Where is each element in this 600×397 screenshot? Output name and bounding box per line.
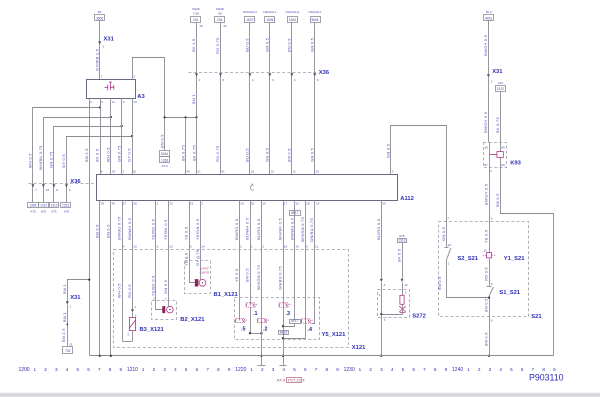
off-page reference AT-4P17.22 (277, 378, 306, 383)
svg-text:2: 2 (252, 78, 254, 82)
S272 connector pins (380, 279, 408, 287)
branch wire to X36 pin 7 (33, 108, 101, 189)
svg-text:2: 2 (369, 367, 372, 372)
svg-text:4923: 4923 (485, 17, 492, 21)
svg-text:BN 2.5: BN 2.5 (84, 148, 89, 162)
svg-text:AT-4: AT-4 (277, 378, 286, 383)
svg-text:AF17: AF17 (291, 211, 299, 215)
solenoid valve Y5_X121 .4 (302, 319, 314, 333)
svg-text:36: 36 (382, 202, 386, 206)
svg-text:4: 4 (294, 78, 296, 82)
wire S1 to ground bus (489, 297, 491, 356)
svg-text:1311: 1311 (40, 204, 47, 208)
svg-text:38: 38 (133, 202, 137, 206)
svg-text:X31: X31 (492, 69, 503, 75)
svg-text:YE/BK 0.5: YE/BK 0.5 (163, 219, 168, 240)
svg-text:WH/GN 0.75: WH/GN 0.75 (256, 265, 261, 290)
svg-text:17: 17 (284, 202, 288, 206)
svg-text:1: 1 (157, 202, 159, 206)
wire 5606 to A112 pin 30 (314, 23, 316, 175)
svg-text:8: 8 (434, 367, 437, 372)
ground bus wire (90, 355, 554, 357)
reference box AF22 (279, 331, 289, 335)
svg-text:31: 31 (271, 170, 275, 174)
svg-text:7: 7 (423, 367, 426, 372)
node HSCAN-H 1624 (285, 10, 299, 23)
power source reference box RL 3606 (95, 10, 105, 20)
svg-text:BN 1: BN 1 (62, 312, 67, 322)
A112 top pin numbers (101, 170, 394, 174)
svg-text:S1_S21: S1_S21 (499, 290, 520, 296)
wire A112 pin 2 to B1_X121 (200, 201, 202, 280)
svg-text:86: 86 (501, 145, 505, 149)
svg-text:6: 6 (491, 319, 493, 323)
svg-text:A3: A3 (137, 94, 145, 100)
svg-text:BN 0.5: BN 0.5 (287, 38, 292, 52)
svg-text:BK 0.75: BK 0.75 (191, 145, 196, 161)
svg-text:BN 0.5: BN 0.5 (245, 268, 250, 282)
svg-text:.1: .1 (253, 311, 258, 317)
svg-text:41: 41 (221, 170, 225, 174)
svg-text:9: 9 (317, 78, 319, 82)
svg-text:5: 5 (76, 367, 79, 372)
svg-text:11: 11 (293, 170, 296, 174)
svg-text:A112: A112 (400, 196, 414, 202)
svg-text:2: 2 (153, 367, 156, 372)
svg-text:2: 2 (240, 245, 242, 249)
svg-text:7.5A: 7.5A (193, 11, 199, 15)
control module A112 (97, 175, 414, 203)
svg-text:40: 40 (186, 170, 190, 174)
svg-text:BN/GY 0.5: BN/GY 0.5 (483, 112, 488, 133)
svg-text:RD 0.5: RD 0.5 (127, 284, 132, 298)
X121 pin numbers (123, 245, 319, 249)
svg-text:9: 9 (392, 170, 394, 174)
svg-text:6: 6 (304, 367, 307, 372)
solenoid valve Y5_X121 .5 (236, 318, 248, 332)
svg-text:HSCAN-L: HSCAN-L (263, 10, 277, 14)
svg-text:BN 0.5: BN 0.5 (95, 224, 100, 238)
svg-text:10: 10 (133, 100, 137, 104)
svg-text:2: 2 (478, 367, 481, 372)
svg-text:BN 0.5: BN 0.5 (287, 148, 292, 162)
svg-text:WH/BK 0.5: WH/BK 0.5 (278, 218, 283, 240)
svg-text:RD 0.75: RD 0.75 (215, 146, 220, 162)
svg-text:6: 6 (101, 100, 103, 104)
wire S2 return to S1 junction (447, 261, 490, 298)
svg-text:B3_X121: B3_X121 (140, 327, 165, 333)
svg-text:GY 0.5: GY 0.5 (61, 154, 66, 168)
svg-text:6: 6 (223, 78, 225, 82)
svg-text:BU/RD 0.5: BU/RD 0.5 (376, 219, 381, 240)
svg-text:1: 1 (251, 245, 253, 249)
wire valve 1 return (249, 308, 263, 335)
svg-text:201: 201 (193, 18, 199, 22)
svg-text:1200: 1200 (18, 367, 29, 373)
valve block Y5_X121 dashed box (235, 298, 347, 340)
svg-text:A7.6: A7.6 (162, 164, 169, 168)
svg-text:5: 5 (157, 245, 159, 249)
wire A112 pin 20 to valve 1 (250, 201, 252, 306)
svg-text:GN 0.5: GN 0.5 (309, 148, 314, 162)
svg-text:40: 40 (112, 202, 116, 206)
svg-text:1312: 1312 (51, 204, 58, 208)
svg-text:BN/RD 0.5: BN/RD 0.5 (234, 219, 239, 240)
wire A112 pin 22 to B2_X121 (168, 201, 170, 307)
svg-text:.4: .4 (308, 327, 313, 333)
assembly S21 dashed box (439, 222, 543, 320)
svg-text:BN 0.5: BN 0.5 (484, 332, 489, 346)
svg-text:1: 1 (379, 293, 381, 297)
svg-text:3: 3 (127, 333, 129, 337)
svg-text:GN 0.75: GN 0.75 (49, 151, 54, 168)
svg-text:X36: X36 (70, 179, 81, 185)
svg-text:BN 1: BN 1 (191, 94, 196, 104)
svg-text:2: 2 (405, 291, 407, 295)
wire A112 pin 9 loop to S2_S21 (391, 126, 447, 248)
svg-text:GN/BU 0.75: GN/BU 0.75 (309, 218, 314, 242)
svg-text:GN 0.5: GN 0.5 (441, 227, 446, 241)
svg-text:3: 3 (489, 367, 492, 372)
svg-text:2: 2 (491, 79, 493, 83)
svg-text:1607: 1607 (246, 18, 253, 22)
wire labels left column (28, 145, 67, 170)
wire A112 pin 14 to valve 4 right (312, 201, 315, 324)
svg-text:5044: 5044 (161, 152, 168, 156)
svg-text:BN/WH 0.5: BN/WH 0.5 (127, 218, 132, 240)
svg-text:S272: S272 (412, 313, 426, 319)
svg-text:20: 20 (133, 170, 137, 174)
svg-text:1: 1 (142, 367, 145, 372)
svg-text:BK 0.75: BK 0.75 (180, 145, 185, 161)
svg-text:234: 234 (217, 18, 223, 22)
svg-text:HSCAN-L: HSCAN-L (308, 10, 322, 14)
svg-text:6: 6 (196, 367, 199, 372)
svg-text:8: 8 (326, 367, 329, 372)
svg-text:9: 9 (228, 367, 231, 372)
svg-text:1: 1 (467, 367, 470, 372)
svg-text:X31: X31 (70, 295, 81, 301)
svg-text:3: 3 (102, 45, 104, 49)
svg-text:S2_S21: S2_S21 (457, 256, 478, 262)
svg-text:10: 10 (483, 248, 487, 252)
svg-text:8: 8 (217, 367, 220, 372)
wire A112 pin 38 to B3_X121 sensor (123, 201, 133, 342)
svg-text:39: 39 (101, 202, 105, 206)
coordinate ruler (18, 367, 556, 373)
svg-text:A75: A75 (30, 210, 36, 214)
svg-text:BU/WH 0.5: BU/WH 0.5 (245, 218, 250, 240)
svg-text:BN 0.5: BN 0.5 (495, 193, 500, 207)
off-page tick right (280, 365, 287, 367)
svg-text:2: 2 (201, 202, 203, 206)
svg-text:8: 8 (123, 100, 125, 104)
svg-text:BK 0.5: BK 0.5 (397, 249, 402, 262)
branch wire to X36 pin 15 (44, 118, 111, 189)
svg-text:1: 1 (186, 256, 188, 260)
svg-text:GN 0.5: GN 0.5 (163, 280, 168, 294)
svg-text:7: 7 (35, 188, 37, 192)
svg-text:9: 9 (336, 367, 339, 372)
svg-text:18: 18 (240, 202, 244, 206)
branch wire to X36 pin 9 (67, 137, 133, 189)
svg-text:10: 10 (295, 202, 299, 206)
svg-text:24: 24 (112, 170, 116, 174)
solenoid Y1_S21 (483, 248, 526, 261)
svg-text:1220: 1220 (235, 367, 246, 373)
svg-text:A75: A75 (399, 234, 405, 238)
wire 1606 to A112 pin 31 (269, 23, 271, 175)
svg-text:11: 11 (315, 245, 318, 249)
svg-text:4: 4 (123, 245, 125, 249)
wire 1313 to S272 (402, 243, 404, 296)
svg-text:12: 12 (404, 283, 408, 287)
svg-text:4: 4 (283, 367, 286, 372)
wire BK 0.75 to A112 pin 40 (185, 118, 187, 175)
svg-text:X36: X36 (319, 70, 330, 76)
svg-text:1210: 1210 (127, 367, 138, 373)
connector X31 pin 2 right (487, 69, 503, 83)
wire A112 pin 27 to B3_X121 (122, 201, 124, 342)
svg-text:15: 15 (295, 245, 299, 249)
svg-text:X121: X121 (352, 345, 366, 351)
sensor B1_X121 (185, 256, 239, 298)
svg-text:BN 0.5: BN 0.5 (437, 276, 442, 290)
wire BK 0.75 to A112 pin 21 (196, 118, 198, 175)
wire 1312 to K93 pin 86 (500, 92, 502, 143)
A112 bottom pin numbers (101, 202, 386, 206)
wire RL to A3 pin 7 (99, 21, 101, 80)
node junction horizontal 117 (165, 117, 197, 119)
svg-text:3: 3 (384, 318, 386, 322)
svg-text:S21: S21 (531, 314, 542, 320)
svg-text:B2_X121: B2_X121 (180, 317, 205, 323)
svg-text:WH 0.5: WH 0.5 (106, 147, 111, 162)
svg-text:1240: 1240 (452, 367, 463, 373)
A3 internal symbol (105, 82, 114, 90)
svg-text:14: 14 (201, 245, 205, 249)
svg-text:3: 3 (380, 367, 383, 372)
svg-text:8: 8 (109, 367, 112, 372)
svg-text:BN/GY 0.5: BN/GY 0.5 (483, 35, 488, 56)
svg-text:9: 9 (445, 367, 448, 372)
svg-text:GN/BU 0.75: GN/BU 0.75 (278, 266, 283, 290)
svg-text:7: 7 (206, 367, 209, 372)
svg-text:P903110: P903110 (529, 372, 564, 382)
svg-text:6: 6 (87, 367, 90, 372)
sensor B2_X121 (152, 296, 206, 323)
svg-text:A75: A75 (41, 210, 47, 214)
svg-text:1: 1 (250, 367, 253, 372)
svg-text:20: 20 (251, 202, 255, 206)
svg-text:3606: 3606 (96, 17, 103, 21)
svg-text:19: 19 (251, 170, 255, 174)
wire A112 pin 40 to ground bus (110, 201, 112, 356)
svg-text:13: 13 (169, 245, 173, 249)
svg-text:≟: ≟ (311, 319, 314, 323)
svg-text:K93: K93 (510, 160, 521, 166)
connector X121 dashed box (114, 250, 367, 351)
svg-text:4: 4 (499, 367, 502, 372)
reference box AF17 lower (290, 320, 301, 324)
wire A112 pin 36 to S272 (381, 201, 383, 315)
svg-text:BN 0.5: BN 0.5 (484, 298, 489, 312)
svg-text:2: 2 (135, 314, 137, 318)
svg-text:1306: 1306 (29, 204, 36, 208)
svg-text:GN 0.75: GN 0.75 (116, 145, 121, 162)
svg-text:1: 1 (135, 305, 137, 309)
svg-text:5: 5 (185, 367, 188, 372)
svg-text:WH 0.5: WH 0.5 (28, 153, 33, 168)
wire A112 pin 39 to ground bus (99, 201, 101, 356)
connector X31 pin 3 (98, 36, 114, 48)
wire A112 pin 18b to valve 4 (305, 201, 307, 339)
svg-text:1313: 1313 (398, 239, 405, 243)
svg-text:YE 0.5: YE 0.5 (484, 230, 489, 243)
svg-text:1: 1 (359, 367, 362, 372)
fuse FE28 5A box 234 (215, 7, 228, 28)
svg-text:AF22: AF22 (280, 330, 288, 334)
wire A112 pin 10 to AF17 (294, 201, 296, 320)
svg-text:9: 9 (190, 245, 192, 249)
svg-text:RD 0.5: RD 0.5 (484, 267, 489, 281)
svg-text:3: 3 (272, 367, 275, 372)
svg-text:GY/WB 2.5: GY/WB 2.5 (94, 49, 99, 71)
A112 internal symbol (250, 184, 254, 190)
svg-text:GN 0.5: GN 0.5 (265, 38, 270, 52)
svg-text:14: 14 (316, 202, 320, 206)
wire K93 pin 85 to ground rail (501, 168, 554, 356)
svg-text:18: 18 (306, 202, 310, 206)
svg-text:BN 0.5: BN 0.5 (106, 224, 111, 238)
svg-text:1333: 1333 (161, 158, 168, 162)
svg-text:2: 2 (261, 367, 264, 372)
relay K93 (484, 143, 522, 173)
svg-text:16: 16 (284, 245, 288, 249)
svg-text:BK 0.75: BK 0.75 (495, 117, 500, 133)
svg-text:1624: 1624 (289, 18, 296, 22)
svg-text:(1)AF03: (1)AF03 (200, 270, 210, 274)
svg-text:YE/BK 0.5: YE/BK 0.5 (151, 275, 156, 296)
svg-text:85: 85 (501, 163, 505, 167)
svg-text:2: 2 (44, 367, 47, 372)
switch S1_S21 (487, 282, 521, 297)
svg-text:BU 0.5: BU 0.5 (245, 38, 250, 52)
svg-text:16: 16 (199, 24, 203, 28)
svg-text:5A: 5A (218, 11, 222, 15)
svg-text:5: 5 (510, 367, 513, 372)
svg-text:WH/BU 0.75: WH/BU 0.75 (38, 145, 43, 170)
svg-text:7: 7 (315, 367, 318, 372)
wire K93 pin 87 down to S21 (489, 168, 491, 253)
svg-text:27: 27 (123, 202, 127, 206)
branch wire to left X31 (68, 278, 91, 346)
wire Y1 to S1 (489, 258, 491, 287)
svg-text:1: 1 (69, 304, 71, 308)
svg-text:5: 5 (123, 170, 125, 174)
svg-text:HSCAN-H: HSCAN-H (243, 10, 257, 14)
wire A112 pin 16 through valve 2 to off-page (261, 201, 263, 366)
reference box 1313 A75 (398, 234, 407, 243)
node HSCAN-L 1606 (263, 10, 277, 23)
svg-text:4: 4 (66, 367, 69, 372)
svg-text:BN/WH 0.5: BN/WH 0.5 (289, 218, 294, 240)
svg-text:6: 6 (306, 245, 308, 249)
svg-text:1312: 1312 (497, 87, 504, 91)
svg-text:9: 9 (69, 188, 71, 192)
svg-text:A13: A13 (498, 81, 504, 85)
svg-text:BK 1.5: BK 1.5 (191, 39, 196, 52)
svg-text:GN 0.5: GN 0.5 (309, 38, 314, 52)
svg-text:.5: .5 (241, 326, 246, 332)
svg-text:22: 22 (169, 202, 173, 206)
svg-text:3: 3 (55, 367, 58, 372)
A3 pin numbers (90, 75, 137, 104)
wire A3 pin 5 loop to node (133, 58, 165, 151)
svg-text:3: 3 (163, 367, 166, 372)
svg-text:7: 7 (101, 75, 103, 79)
svg-text:GY 0.5: GY 0.5 (127, 148, 132, 162)
svg-text:6: 6 (521, 367, 524, 372)
svg-text:4: 4 (302, 378, 305, 383)
wire A3 pin 10 to A112 pin 20 (132, 99, 134, 175)
svg-text:15: 15 (46, 188, 50, 192)
svg-text:BN/GY 0.5: BN/GY 0.5 (484, 184, 489, 205)
svg-text:9: 9 (119, 367, 122, 372)
wire fuse 234 to A112 pin 41 (220, 23, 222, 175)
svg-text:≟: ≟ (289, 303, 292, 307)
svg-text:≟: ≟ (245, 318, 248, 322)
switch S2_S21 (445, 243, 479, 266)
svg-text:2: 2 (90, 100, 92, 104)
svg-text:4: 4 (174, 367, 177, 372)
wire A112 pin 1 to B2_X121 (156, 201, 163, 310)
svg-text:≟: ≟ (267, 318, 270, 322)
bottom band (0, 392, 600, 397)
svg-text:5: 5 (402, 367, 405, 372)
svg-text:YE 0.5: YE 0.5 (234, 269, 239, 282)
svg-text:5: 5 (491, 282, 493, 286)
svg-text:WH/GN 0.75: WH/GN 0.75 (300, 217, 305, 242)
svg-text:11: 11 (112, 100, 115, 104)
svg-text:1: 1 (448, 262, 450, 266)
svg-text:AF17: AF17 (291, 319, 299, 323)
svg-text:Y5_X121: Y5_X121 (322, 332, 347, 338)
svg-text:7: 7 (98, 367, 101, 372)
svg-text:RL0: RL0 (486, 10, 492, 14)
svg-text:8: 8 (56, 188, 58, 192)
power source reference box RL0 4923 (484, 10, 494, 20)
svg-text:6: 6 (491, 217, 493, 221)
svg-text:4: 4 (101, 170, 103, 174)
wire valve 4 return (284, 338, 306, 340)
reference box AF17 upper (290, 211, 301, 216)
switch S272 (378, 290, 426, 322)
fuse FE29 7.5A box 201 (191, 7, 204, 28)
svg-text:A75: A75 (51, 210, 57, 214)
connector X36 left (29, 179, 97, 185)
svg-text:3: 3 (262, 245, 264, 249)
svg-text:10: 10 (133, 245, 137, 249)
X36 top pins 1 6 2 3 4 9 (195, 73, 319, 82)
svg-text:YE/RD 0.5: YE/RD 0.5 (151, 219, 156, 240)
connector X36 top (189, 70, 330, 76)
wire A3 pin 8 to A112 pin 5 (121, 99, 123, 175)
wire fuse 201 down (196, 23, 198, 118)
solenoid valve Y5_X121 .3 (279, 303, 291, 317)
svg-text:Y1_S21: Y1_S21 (504, 256, 525, 262)
svg-text:23: 23 (190, 202, 194, 206)
